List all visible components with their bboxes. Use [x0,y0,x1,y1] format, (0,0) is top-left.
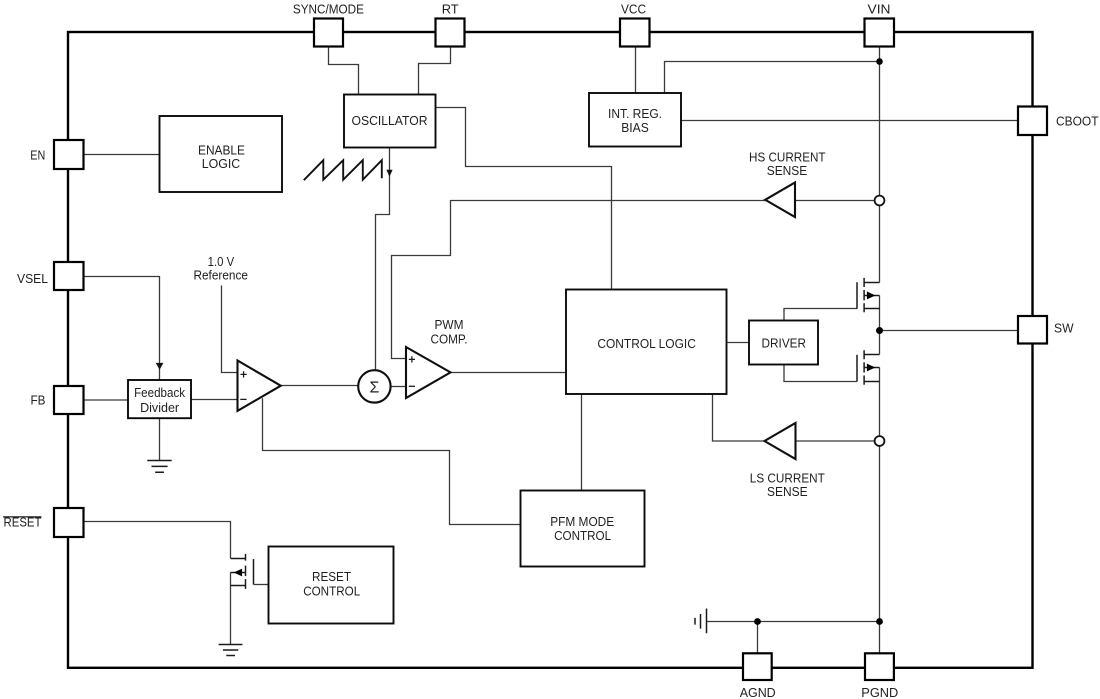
summing node sigma circle [358,370,390,402]
svg-text:SW: SW [1054,320,1074,335]
pin AGND [743,653,772,680]
comparator: PWM comparator [406,347,451,398]
block: PFM MODE CONTROL [521,491,645,567]
pin RT [436,19,465,47]
svg-text:SENSE: SENSE [767,484,808,499]
svg-text:Reference: Reference [193,268,248,283]
transistor: high-side power MOSFET [857,278,880,312]
pin PGND [865,653,894,680]
svg-text:CONTROL LOGIC: CONTROL LOGIC [597,336,696,351]
svg-text:Σ: Σ [369,380,379,397]
wire: analog ground rail [707,621,880,623]
block: Feedback Divider [128,380,191,418]
wire: feedback divider ground stem [159,417,161,460]
svg-text:AGND: AGND [740,685,776,699]
svg-text:VSEL: VSEL [17,271,48,286]
wire: RT pin to oscillator top [419,48,451,95]
wire: VCC pin to INT. REG. BIAS top [635,48,637,94]
svg-text:OSCILLATOR: OSCILLATOR [352,113,428,128]
pin VCC [620,19,650,47]
wire: feedback divider to error amplifier - input [191,399,238,401]
node: HS current sense tap circle [875,196,885,206]
wire: VIN sense tap to HS current sense input [795,200,875,202]
arrowhead on oscillator sawtooth wire [386,170,392,177]
svg-text:RESET: RESET [312,569,351,584]
block: ENABLE LOGIC [160,116,283,192]
block: RESET CONTROL [269,547,394,624]
wire: oscillator sawtooth output to summing node [376,148,390,371]
svg-text:LOGIC: LOGIC [202,156,241,171]
wire: oscillator right output to control logic top [436,108,612,290]
pin SW [1018,316,1047,344]
pin RESET [54,508,84,537]
node: SW junction dot [876,327,883,334]
ground: below feedback divider [147,461,171,473]
svg-text:RT: RT [442,1,459,16]
wire: high-side source to low-side drain (SW node) [879,296,881,355]
svg-text:CBOOT: CBOOT [1056,114,1099,129]
pin EN [54,140,84,169]
amp: LS current sense [765,423,796,459]
error amplifier + sign [241,371,247,377]
wire: SYNC/MODE pin to oscillator top [329,48,359,95]
svg-text:CONTROL: CONTROL [303,583,360,598]
node: PGND junction dot [876,618,883,625]
wire: INT. REG. BIAS to CBOOT pin [681,120,1018,122]
wire: VSEL pin to feedback divider top [84,277,160,381]
arrowhead on VSEL wire at feedback divider [156,363,164,370]
node: LS current sense tap circle [875,436,885,446]
wire: control logic to driver [727,342,750,344]
wire: EN pin to enable logic [84,154,159,156]
wire: FB pin to feedback divider [84,399,128,401]
wire: VIN node to INT. REG. BIAS top [665,62,880,94]
svg-text:EN: EN [30,148,45,163]
pin VIN [865,19,895,47]
transistor: reset open-drain MOSFET [231,554,254,589]
node: AGND junction dot [754,618,761,625]
svg-text:PWM: PWM [435,317,464,332]
svg-text:COMP.: COMP. [431,331,468,346]
ground: below reset FET [219,645,243,656]
pin FB [54,386,84,414]
svg-text:FB: FB [31,393,46,408]
pin CBOOT [1018,107,1047,136]
wire: HS current sense output to PWM comparator + input [392,201,766,359]
svg-text:PFM MODE: PFM MODE [550,514,614,529]
svg-text:VCC: VCC [621,1,646,16]
wire: reset FET gate to reset control [254,584,269,586]
sawtooth waveform symbol [304,160,382,180]
svg-text:INT. REG.: INT. REG. [608,106,662,121]
error amplifier - sign [240,398,246,400]
pin VSEL [54,262,84,290]
wire: control logic bottom to PFM mode control top [581,394,583,491]
wire: reset FET source to ground [230,573,232,645]
wire: COMP tap to PFM mode control [263,398,521,524]
block: DRIVER [749,321,818,365]
wire: VIN pin down to high-side FET drain [879,48,881,283]
svg-text:SYNC/MODE: SYNC/MODE [293,1,364,16]
wire: error amplifier output to summing node [281,385,359,387]
transistor: low-side power MOSFET [857,350,880,385]
pin SYNC/MODE [314,19,343,47]
wire: LS current sense output to control logic bottom [713,394,765,441]
PWM comparator - sign [409,385,415,387]
wire: 1.0 V reference to error amplifier + input [222,286,238,373]
wire: PWM comparator output to control logic [450,372,566,374]
svg-text:VIN: VIN [868,1,891,16]
wire: RESET pin to reset FET drain [84,522,231,559]
wire: SW node to SW pin [880,330,1019,332]
svg-text:PGND: PGND [861,685,898,699]
wire: driver to low-side FET gate [784,365,857,382]
block: CONTROL LOGIC [566,290,727,395]
svg-text:DRIVER: DRIVER [762,335,807,350]
wire: LS sense tap to LS current sense input [796,440,875,442]
PWM comparator + sign [409,356,415,362]
svg-text:CONTROL: CONTROL [554,528,611,543]
block: INT. REG. BIAS [589,93,681,147]
wire: driver to high-side FET gate [784,309,857,321]
node: VIN junction dot [876,58,883,65]
block: OSCILLATOR [344,95,436,148]
svg-text:HS CURRENT: HS CURRENT [749,149,826,164]
svg-text:SENSE: SENSE [767,163,808,178]
amp: HS current sense [765,183,795,218]
svg-text:Feedback: Feedback [134,386,186,400]
svg-text:Divider: Divider [140,401,179,415]
ground: analog ground symbol [695,609,707,634]
wire: low-side source down to PGND pin [879,368,881,653]
wire: AGND pin stub [757,622,759,653]
svg-text:BIAS: BIAS [621,120,649,135]
outer boundary of device [68,32,1033,668]
op-amp: error amplifier [238,361,281,411]
wire: summing node to PWM comparator - input [391,386,407,388]
